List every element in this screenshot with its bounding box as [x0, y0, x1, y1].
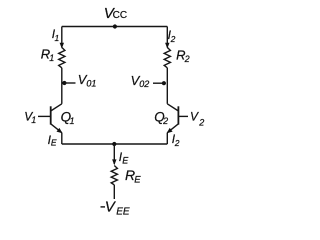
wire right branch with I2 current arrow [166, 27, 168, 48]
svg-text:E: E [51, 138, 57, 148]
node V02 output dot [162, 81, 166, 85]
wire Q2 base stub [178, 115, 188, 117]
wire RE to VEE [113, 185, 115, 199]
svg-text:2: 2 [198, 117, 204, 127]
node V01 output dot [62, 81, 66, 85]
transistor Q2 collector [167, 104, 178, 111]
svg-text:1: 1 [70, 116, 75, 126]
svg-text:2: 2 [170, 34, 176, 44]
node emitter junction dot [112, 142, 116, 146]
label R2 [176, 47, 190, 64]
wire Q2 emitter to rail [166, 133, 168, 144]
transistor Q1 collector [51, 104, 62, 111]
svg-text:2: 2 [184, 54, 190, 64]
resistor R2 [164, 47, 170, 67]
label IE left [48, 133, 57, 148]
label I2 [168, 28, 176, 44]
wire Q1 base stub [38, 115, 51, 117]
svg-text:V: V [190, 110, 199, 124]
svg-text:1: 1 [31, 115, 36, 125]
label RE [125, 167, 141, 186]
svg-text:1: 1 [55, 33, 60, 43]
label I2 emitter [172, 132, 180, 148]
wire Q1 emitter to rail [61, 133, 63, 144]
label VCC [104, 5, 127, 22]
svg-text:E: E [122, 156, 129, 166]
wire R1 to collector [61, 68, 63, 104]
label V02 [131, 73, 150, 89]
arrowhead I2 [165, 43, 169, 49]
svg-text:02: 02 [139, 79, 149, 89]
node Vcc supply dot [113, 24, 117, 28]
svg-text:01: 01 [86, 79, 96, 89]
label I1 [52, 27, 60, 43]
label V2 [190, 110, 204, 128]
label V01 [78, 72, 97, 89]
transistor Q2 base bar [177, 106, 179, 124]
svg-text:CC: CC [113, 10, 127, 21]
label IE tail [119, 150, 130, 165]
svg-text:V: V [105, 199, 117, 216]
arrowhead IE tail [112, 159, 116, 165]
wire bottom rail [62, 143, 168, 145]
transistor Q1 emitter [51, 124, 62, 133]
label R1 [41, 47, 55, 64]
wire R2 to collector [166, 68, 168, 104]
wire tail with IE arrow [113, 144, 115, 164]
wire V01 stub [64, 82, 75, 84]
arrowhead Q1 emitter [57, 128, 63, 133]
wire V02 stub [153, 82, 164, 84]
wire left branch with I1 current arrow [61, 27, 63, 48]
transistor Q1 base bar [50, 106, 52, 124]
arrowhead Q2 emitter [167, 128, 173, 133]
label Q1 [61, 109, 75, 126]
svg-text:2: 2 [162, 116, 168, 126]
label Q2 [154, 109, 168, 126]
svg-text:2: 2 [174, 138, 180, 148]
wire top rail [62, 26, 168, 28]
svg-text:E: E [134, 175, 141, 186]
arrowhead I1 [60, 43, 64, 49]
label -VEE [101, 199, 130, 218]
svg-text:1: 1 [49, 53, 54, 63]
resistor RE [111, 166, 117, 185]
label V1 [24, 109, 36, 125]
resistor R1 [59, 47, 65, 67]
svg-text:EE: EE [116, 206, 130, 217]
transistor Q2 emitter [167, 124, 178, 133]
